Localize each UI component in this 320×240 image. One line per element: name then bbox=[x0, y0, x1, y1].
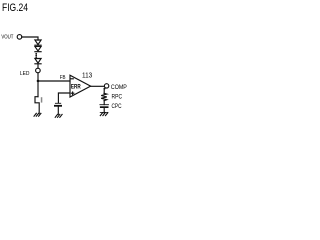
svg-text:LED: LED bbox=[20, 71, 30, 77]
junction node FB bbox=[37, 80, 40, 83]
ground (below transistor) bbox=[34, 113, 41, 116]
transistor Q1 channel jog bbox=[35, 97, 39, 114]
reference source thick plate bbox=[54, 105, 62, 107]
terminal VOUT circle bbox=[17, 35, 22, 40]
svg-text:FB: FB bbox=[60, 75, 66, 81]
ground (below battery) bbox=[55, 114, 62, 117]
diode D3 bbox=[35, 59, 41, 64]
junction node below COMP bbox=[104, 88, 106, 90]
resistor RPC zigzag bbox=[101, 93, 107, 100]
svg-text:RPC: RPC bbox=[112, 93, 123, 100]
wire battery to ground bbox=[57, 107, 59, 115]
capacitor CPC bottom plate bbox=[100, 106, 109, 108]
wire RPC to CPC bbox=[103, 101, 105, 105]
diode D2 bbox=[35, 46, 41, 51]
svg-text:ERR: ERR bbox=[71, 83, 81, 90]
terminal LED circle bbox=[36, 68, 41, 73]
ground (below CPC) bbox=[100, 112, 108, 115]
op-amp ERR 113 bbox=[70, 75, 91, 97]
transistor Q1 gate bar bbox=[41, 97, 43, 102]
wire VOUT to diode chain bbox=[22, 37, 38, 40]
terminal COMP circle bbox=[104, 84, 108, 88]
diode D1 bbox=[35, 40, 41, 45]
svg-text:CPC: CPC bbox=[112, 103, 122, 110]
wire junction down to transistor bbox=[37, 81, 39, 97]
capacitor CPC top plate bbox=[100, 104, 109, 106]
reference source (battery cell) thin plate bbox=[55, 102, 60, 104]
svg-text:COMP: COMP bbox=[111, 84, 127, 91]
wire op-amp output to COMP bbox=[91, 85, 105, 87]
wire LED circle to junction bbox=[37, 73, 39, 81]
ellipsis dots (omitted diodes) bbox=[35, 53, 37, 58]
wire diode D3 to LED terminal bbox=[37, 64, 39, 68]
wire junction to resistor RPC bbox=[103, 89, 105, 94]
wire FB to op-amp inverting input bbox=[38, 80, 70, 82]
svg-text:VOUT: VOUT bbox=[1, 34, 13, 40]
wire op-amp + input to reference source bbox=[58, 93, 70, 103]
svg-text:113: 113 bbox=[82, 70, 92, 79]
svg-text:FIG.24: FIG.24 bbox=[2, 2, 28, 14]
wire CPC to ground bbox=[103, 108, 105, 113]
